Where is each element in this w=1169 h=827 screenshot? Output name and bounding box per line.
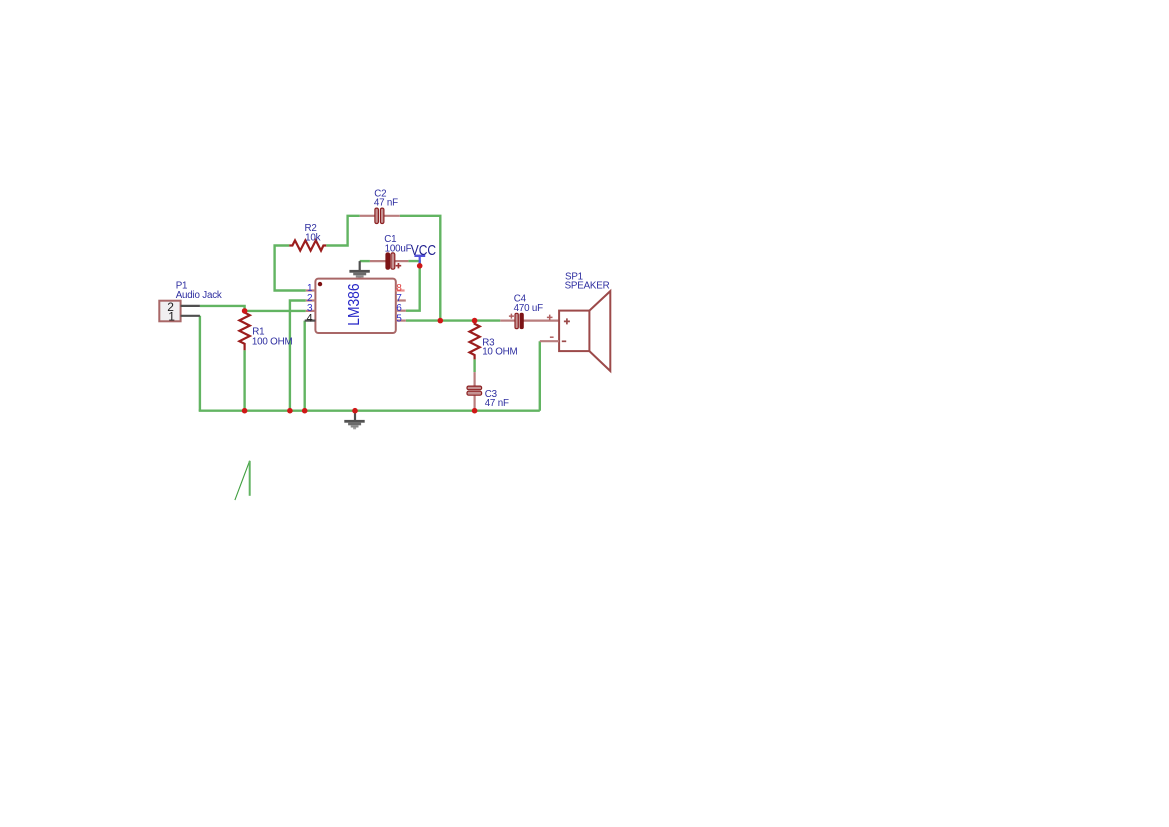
capacitor C2 [360, 208, 400, 223]
resistor R2 [289, 240, 326, 250]
wire P1 pin1 down [199, 316, 201, 411]
P1 pin2 stub [181, 305, 200, 307]
svg-text:100uF: 100uF [385, 244, 412, 255]
svg-text:47 nF: 47 nF [485, 398, 509, 409]
wire IC pin5 to C4 [406, 319, 501, 321]
capacitor C3 [467, 372, 482, 411]
svg-text:10k: 10k [305, 233, 320, 244]
connector P1 box [159, 301, 180, 322]
wire R3 to C3 [473, 359, 475, 372]
junction bus R1 [242, 408, 248, 414]
junction bus pin2 [287, 408, 293, 414]
junction C2 net pin5 [438, 318, 444, 324]
pin 7 stub [396, 299, 406, 301]
pin 8 stub [396, 289, 405, 291]
wire speaker minus to bus [539, 341, 541, 411]
svg-text:SPEAKER: SPEAKER [565, 280, 610, 291]
wire IC pin2 net [290, 301, 306, 411]
pin 3 stub [306, 310, 316, 312]
svg-text:470 uF: 470 uF [514, 303, 544, 314]
wire C2 right down to pin5 net [400, 216, 441, 321]
wire C1 right to VCC and IC pin6 [406, 261, 420, 311]
P1 pin1 stub [181, 315, 200, 317]
resistor R1 [239, 311, 249, 350]
svg-text:VCC: VCC [411, 242, 436, 259]
pin 6 stub [396, 310, 406, 312]
capacitor C1 [370, 253, 409, 269]
wire R2 right to C2 left [326, 216, 360, 246]
svg-text:LM386: LM386 [346, 283, 363, 325]
capacitor C4 [500, 313, 559, 328]
wire R1 bottom to bus [243, 350, 245, 411]
svg-text:4: 4 [306, 312, 312, 324]
wire IC pin4 net [304, 321, 306, 411]
svg-text:5: 5 [396, 313, 402, 324]
ground near C1 [349, 261, 369, 279]
ground at bus [344, 411, 364, 430]
svg-text:Audio Jack: Audio Jack [176, 290, 222, 301]
wire IC pin1 net from R2 [275, 246, 306, 291]
junction R3 top [472, 318, 478, 324]
pin 5 stub [396, 320, 406, 322]
pin 1 stub [306, 289, 316, 291]
junction bus pin4 [302, 408, 308, 414]
junction bus ground [352, 408, 358, 414]
resistor R3 [470, 321, 480, 360]
svg-text:10 OHM: 10 OHM [482, 347, 517, 358]
wire R1 top to IC pin3 [245, 310, 306, 312]
wire P1 pin2 to R1 top [200, 306, 245, 311]
power VCC [411, 242, 436, 264]
junction VCC node [417, 263, 423, 269]
pin 4 stub [305, 320, 316, 322]
wire C1 left to ground [360, 260, 370, 262]
svg-text:47 nF: 47 nF [374, 198, 398, 209]
svg-text:100 OHM: 100 OHM [252, 336, 293, 347]
pin 2 stub [306, 299, 316, 301]
op-amp U1 LM386 [315, 279, 395, 333]
svg-text:1: 1 [168, 310, 175, 324]
wire ground bus [199, 410, 540, 412]
stray wire sketch [235, 461, 250, 500]
speaker SP1 [540, 291, 611, 371]
junction R1 top [242, 308, 248, 314]
junction bus C3 [472, 408, 478, 414]
